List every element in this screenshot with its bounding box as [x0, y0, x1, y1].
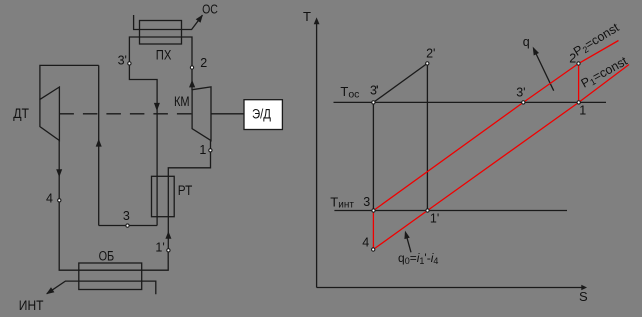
svg-text:2': 2' — [426, 47, 435, 61]
T axis — [316, 22, 318, 288]
arrow q0 line — [406, 234, 411, 253]
arrow up into node 2 — [189, 80, 195, 88]
red segment 2-1 — [578, 64, 580, 103]
svg-text:ОБ: ОБ — [99, 249, 115, 264]
arrow down on DT outlet — [56, 169, 62, 177]
motor ED box — [244, 100, 282, 130]
node 3' — [128, 62, 131, 65]
q arrowhead — [533, 47, 539, 56]
svg-text:T: T — [303, 9, 311, 24]
node 3 diagram — [372, 209, 375, 212]
arrow to OC — [196, 15, 203, 23]
node 1' schematic — [167, 249, 170, 252]
svg-text:q: q — [523, 35, 530, 49]
T-S diagram — [317, 22, 606, 288]
node 3' diagram — [522, 101, 525, 104]
svg-text:ИНТ: ИНТ — [19, 298, 44, 313]
node 3'' diagram — [372, 101, 375, 104]
evaporator OB body — [79, 263, 142, 290]
svg-text:РТ: РТ — [178, 183, 193, 198]
isobar P2 red — [374, 41, 619, 211]
wire: cooling water line through PX to OC — [134, 15, 203, 30]
arrow up on node3 riser — [96, 139, 102, 147]
svg-text:3: 3 — [123, 209, 130, 223]
Tint isotherm — [334, 210, 567, 212]
svg-text:4: 4 — [362, 235, 369, 249]
T axis arrowhead — [314, 17, 320, 24]
svg-text:1: 1 — [199, 143, 206, 157]
q0 arrowhead — [404, 231, 409, 240]
line 3''-2' — [373, 63, 427, 102]
node 2' diagram — [426, 62, 429, 65]
wire: node3 horizontal — [99, 225, 157, 227]
svg-text:1': 1' — [430, 211, 439, 225]
svg-text:4: 4 — [46, 192, 53, 206]
arrow up on 1' line — [165, 231, 171, 239]
S axis arrowhead — [581, 285, 587, 290]
label P2=const — [571, 20, 622, 59]
svg-text:3'': 3'' — [370, 83, 379, 97]
node 4 diagram — [372, 248, 375, 251]
node 3 schematic — [126, 224, 129, 227]
heat exchanger PX body — [140, 21, 182, 45]
wire: shaft DT to KM (dashed) — [59, 113, 192, 115]
node 1 diagram — [577, 101, 580, 104]
svg-text:ОС: ОС — [202, 1, 218, 16]
wire: top line and drop to DT — [40, 65, 99, 99]
node 4 schematic — [58, 199, 61, 202]
svg-text:3: 3 — [363, 195, 370, 209]
svg-text:ДТ: ДТ — [13, 106, 29, 121]
svg-text:3': 3' — [118, 53, 127, 67]
svg-text:Э/Д: Э/Д — [252, 107, 271, 122]
compressor KM — [192, 87, 211, 141]
S axis — [317, 287, 582, 289]
svg-text:ПХ: ПХ — [156, 48, 172, 63]
line 2'-1' — [426, 63, 428, 210]
svg-text:S: S — [579, 289, 588, 304]
svg-text:2: 2 — [200, 56, 207, 70]
label P1=const — [579, 54, 631, 92]
line 3''-3 — [372, 102, 374, 210]
node 1' diagram — [426, 209, 429, 212]
svg-text:q0=i1'-i4: q0=i1'-i4 — [398, 251, 438, 266]
node 2 schematic — [190, 66, 193, 69]
wire: 3' down and into RT left tube — [129, 63, 157, 226]
arrow q line — [535, 51, 554, 91]
wire: refrigerant line 3'-PX-2 — [129, 37, 192, 90]
wire: node3 riser up to top line — [98, 65, 100, 225]
node 2 diagram — [577, 62, 580, 65]
node 1 schematic — [209, 149, 212, 152]
wire: DT outlet down to OB — [59, 141, 168, 271]
regenerative heat exchanger RT body — [152, 176, 175, 216]
wire: 1' up through RT right tube to node 1 and compressor — [168, 141, 210, 250]
red segment 3-4 — [372, 211, 374, 250]
svg-text:КМ: КМ — [174, 94, 190, 109]
wire: shaft KM to ED — [211, 113, 244, 115]
svg-text:1: 1 — [579, 103, 586, 117]
arrow down on 3'-RT line — [154, 103, 160, 111]
expander DT — [40, 87, 60, 141]
Toc isotherm — [334, 101, 607, 103]
svg-text:3': 3' — [516, 86, 525, 100]
wire: INT coolant line through OB — [47, 281, 156, 294]
arrow to INT — [46, 287, 54, 294]
isobar P1 red — [373, 65, 629, 250]
svg-text:1': 1' — [155, 241, 164, 255]
